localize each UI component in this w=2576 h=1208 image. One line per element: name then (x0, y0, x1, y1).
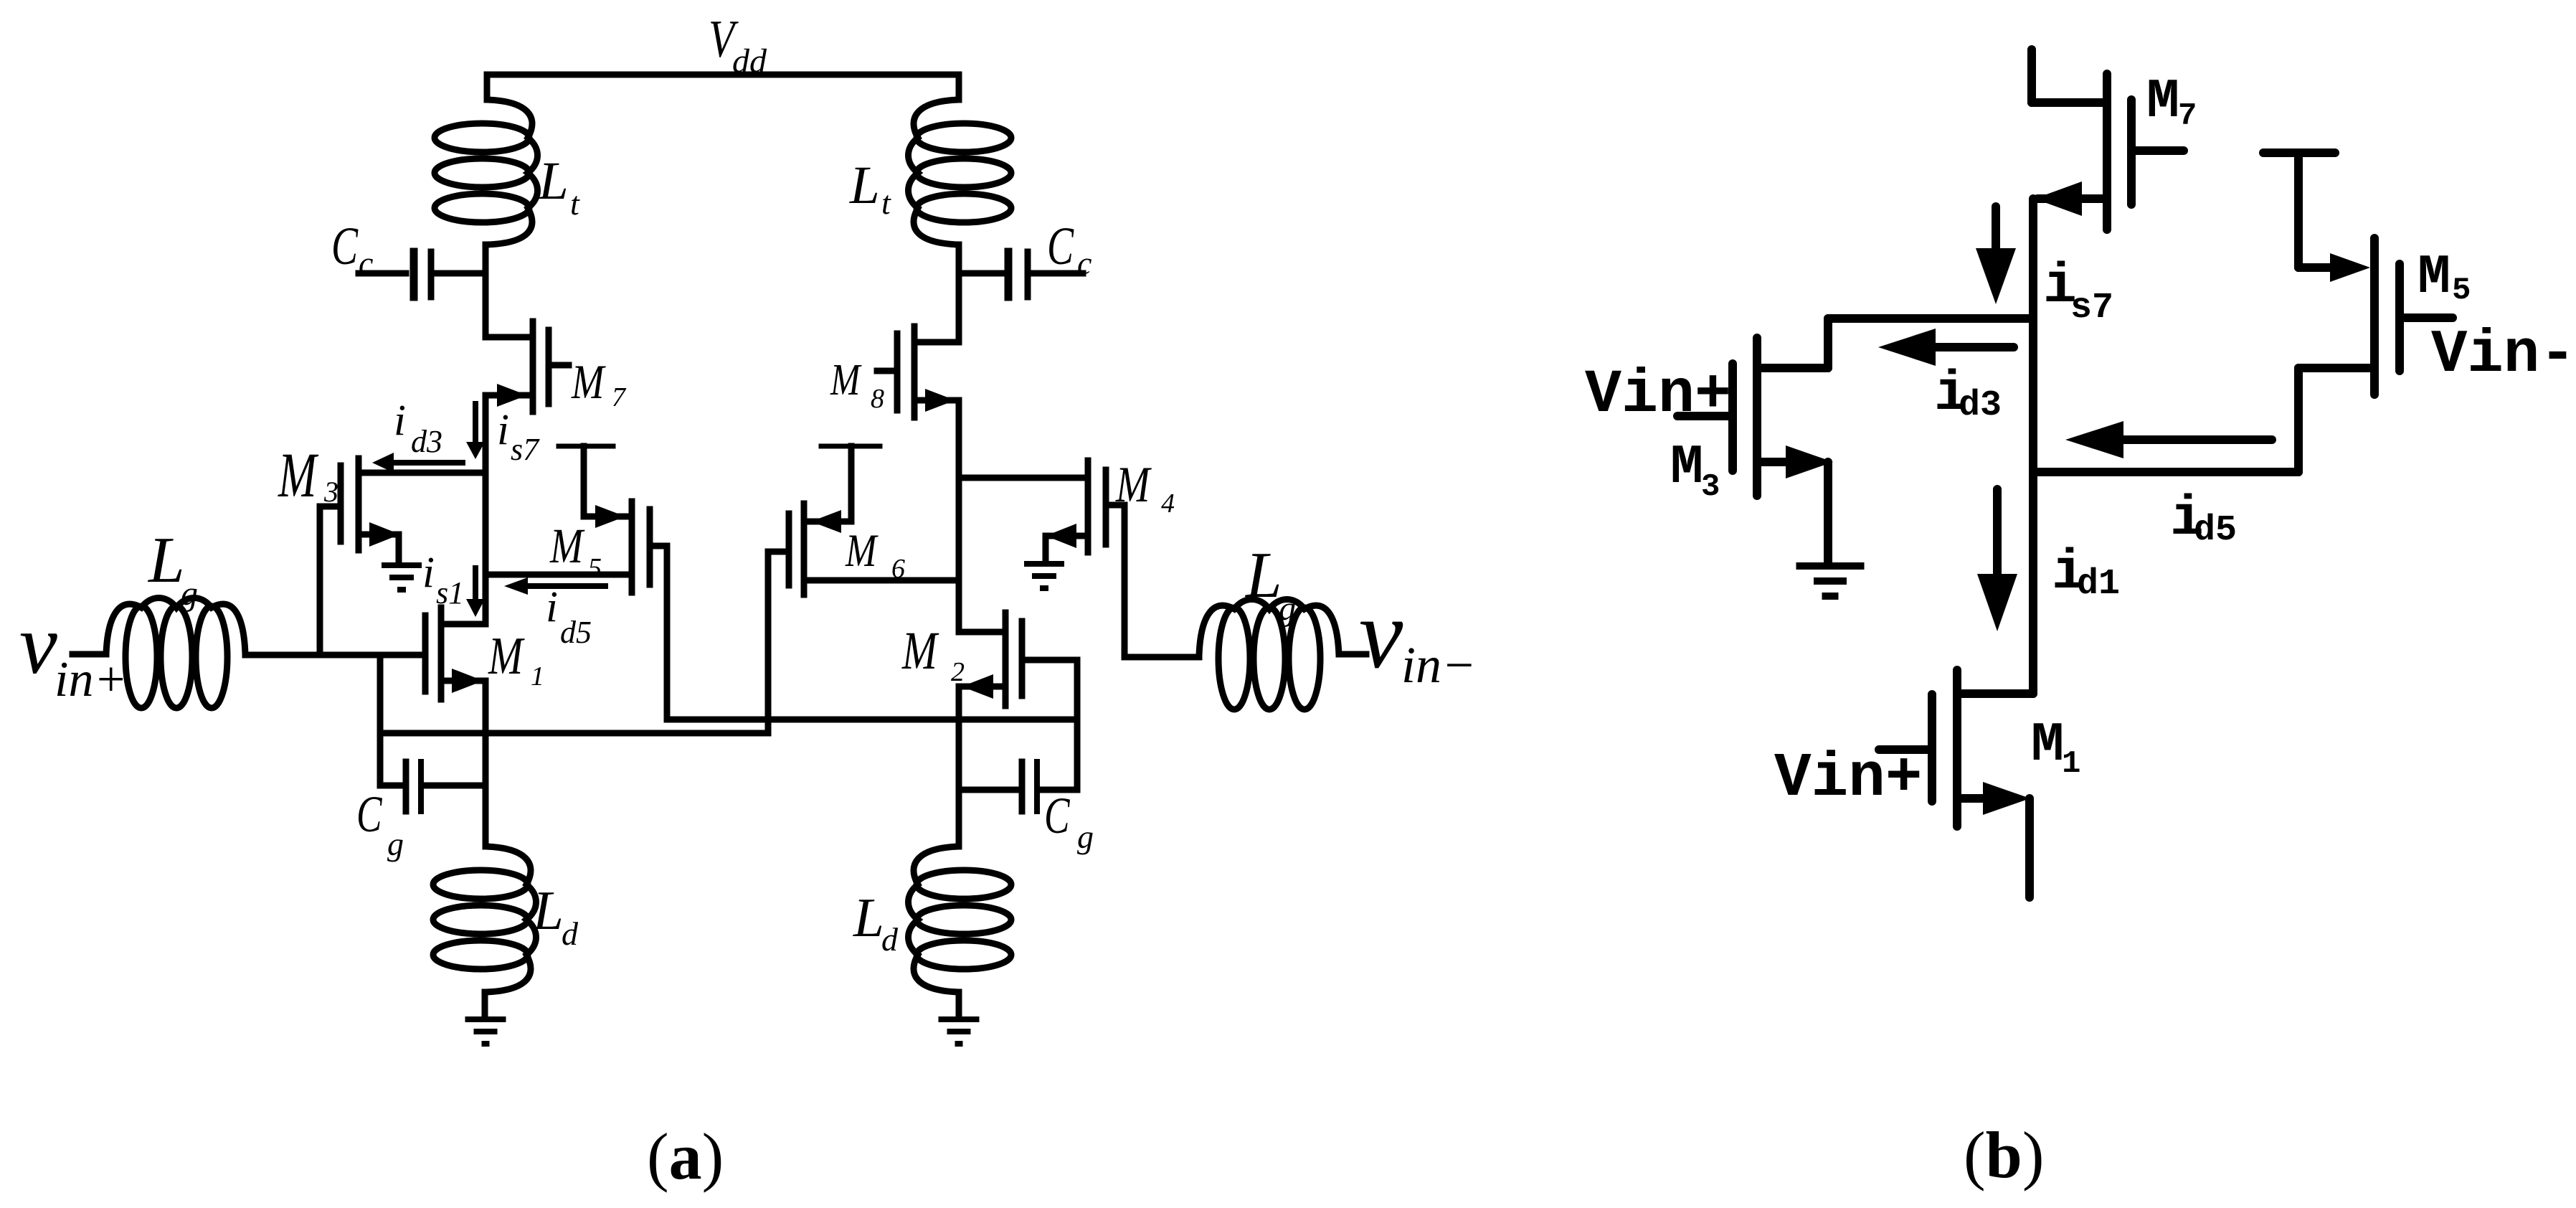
label M1 (b) (2031, 714, 2080, 782)
svg-text:M: M (830, 356, 862, 405)
svg-text:(a): (a) (647, 1120, 724, 1193)
current arrow id3 (b) (1878, 329, 2014, 366)
svg-text:7: 7 (2178, 98, 2197, 134)
label vin- (1359, 579, 1477, 694)
wire input down to Cg (377, 655, 384, 785)
label M4 (1115, 456, 1175, 519)
svg-text:i: i (422, 549, 435, 597)
current arrow is1 (466, 568, 485, 617)
current arrow id5 (b) (2065, 421, 2272, 458)
inductor Lt right (909, 100, 1012, 245)
svg-text:s7: s7 (511, 432, 540, 467)
label id3 (b) (1934, 363, 2002, 426)
current arrow is7 (466, 404, 485, 459)
label Cc left (331, 217, 373, 281)
caption (b) (1964, 1118, 2044, 1192)
svg-text:3: 3 (323, 476, 338, 508)
svg-text:M: M (488, 627, 525, 685)
svg-text:C: C (1044, 787, 1070, 844)
svg-text:d3: d3 (411, 424, 442, 459)
svg-text:L: L (1244, 539, 1282, 611)
svg-text:dd: dd (732, 42, 767, 80)
svg-text:M: M (549, 518, 584, 573)
wire Lt-bottom to M8 drain (956, 245, 962, 342)
svg-text:1: 1 (531, 661, 544, 692)
wire input node (245, 652, 425, 659)
label Vin+ bottom (b) (1774, 743, 1922, 813)
inductor Lt left (435, 100, 538, 245)
label Lg right (1244, 539, 1296, 628)
label M2 (901, 620, 965, 687)
svg-text:i: i (546, 583, 558, 631)
wire M8 source down (956, 400, 962, 632)
svg-text:C: C (331, 217, 359, 276)
transistor M5 (486, 501, 667, 593)
wire M3 gate down to input (317, 506, 323, 655)
svg-text:C: C (1047, 217, 1074, 276)
svg-text:g: g (387, 826, 404, 862)
svg-text:d3: d3 (1959, 385, 2002, 426)
svg-text:(b): (b) (1964, 1118, 2044, 1192)
svg-text:M: M (2418, 247, 2450, 309)
svg-text:d5: d5 (560, 615, 592, 650)
label id1 (b) (2052, 542, 2120, 605)
svg-text:d1: d1 (2077, 564, 2120, 605)
svg-text:M: M (278, 440, 319, 511)
ground M3 source (382, 534, 422, 593)
svg-text:in−: in− (1401, 636, 1477, 694)
svg-text:v: v (19, 597, 57, 692)
label M1 (488, 627, 544, 692)
wire vin+ stub (72, 651, 106, 658)
svg-text:g: g (1279, 590, 1296, 628)
svg-text:M: M (1115, 456, 1152, 512)
svg-text:s7: s7 (2070, 288, 2113, 329)
wire M5 drain to node (b) (2033, 368, 2298, 472)
label Lt right (849, 156, 891, 221)
svg-text:c: c (359, 245, 373, 281)
svg-text:t: t (570, 185, 580, 222)
svg-text:g: g (181, 575, 198, 613)
label M8 (830, 356, 884, 414)
wire M1 source down to Ld (483, 681, 489, 846)
bias tee M5 (559, 446, 613, 515)
ground Ld left (465, 992, 506, 1047)
label is7 (497, 406, 540, 467)
current arrow id1 (b) (1977, 489, 2017, 631)
inductor Ld left (433, 846, 536, 992)
svg-text:L: L (532, 879, 564, 941)
capacitor Cg left (380, 762, 486, 811)
svg-text:t: t (881, 184, 891, 221)
svg-text:c: c (1077, 245, 1092, 281)
svg-text:2: 2 (951, 657, 965, 687)
ground Ld right (939, 992, 980, 1047)
transistor M8 (877, 326, 959, 417)
wire M7 source down (b) (2029, 199, 2037, 694)
svg-text:L: L (147, 524, 185, 596)
wire Lt-bottom to M7 drain (483, 245, 489, 337)
capacitor Cc right (959, 252, 1083, 297)
capacitor Cc left (359, 252, 483, 297)
label Vin- (b) (2431, 321, 2576, 390)
svg-text:v: v (1359, 579, 1403, 689)
ground M3 (b) (1796, 462, 1865, 600)
svg-text:1: 1 (2062, 746, 2080, 782)
transistor M1 (b) (1879, 670, 2033, 897)
label M3 (b) (1670, 437, 1720, 505)
wire input node right (1124, 654, 1199, 661)
svg-text:s1: s1 (436, 575, 464, 610)
svg-text:in+: in+ (55, 652, 128, 707)
inductor Lg left (106, 598, 245, 709)
label Cg left (356, 785, 404, 862)
current arrow is7 (b) (1976, 207, 2016, 304)
svg-text:d5: d5 (2194, 510, 2237, 551)
wire vin- stub (1339, 651, 1366, 658)
wire M2 source down to Ld (956, 686, 962, 846)
label M7 (571, 355, 627, 412)
label Ld right (853, 887, 899, 958)
transistor M4 (959, 461, 1124, 552)
wire M5 gate down (664, 546, 671, 719)
transistor M3 (b) (1677, 338, 1833, 496)
label vin+ (19, 597, 128, 707)
svg-text:5: 5 (588, 553, 602, 583)
svg-text:Vin+: Vin+ (1585, 360, 1731, 430)
svg-text:C: C (356, 785, 382, 843)
inductor Lg right (1199, 600, 1339, 710)
label id5 (546, 583, 592, 650)
wire M3 drain to node (b) (1828, 318, 2033, 368)
current arrow id5 (504, 577, 605, 595)
transistor M1 (425, 608, 486, 699)
transistor M2 (959, 613, 1077, 706)
svg-text:M: M (2146, 71, 2179, 133)
bias tee M6 (821, 446, 880, 520)
transistor M7 (b) (2032, 49, 2184, 230)
label is1 (422, 549, 464, 610)
wire bus M5-gate (667, 660, 1077, 790)
svg-text:7: 7 (612, 382, 627, 412)
svg-text:8: 8 (871, 384, 884, 414)
label Cg right (1044, 787, 1094, 855)
wire M4 gate down to input (1122, 505, 1128, 657)
svg-text:d: d (562, 915, 579, 952)
wire M7 source down (483, 395, 489, 624)
label Vin+ top (b) (1585, 360, 1731, 430)
net Vdd rail (487, 75, 959, 100)
svg-text:Vin-: Vin- (2431, 321, 2576, 390)
transistor M7 (486, 321, 569, 412)
transistor M5 (b) (2263, 153, 2453, 395)
label Lt left (538, 151, 580, 222)
label Vdd (709, 10, 767, 80)
svg-text:L: L (849, 156, 880, 215)
label M3 (278, 440, 338, 511)
svg-text:M: M (1670, 437, 1703, 499)
svg-text:i: i (394, 397, 406, 445)
transistor M6 (768, 504, 959, 595)
svg-text:g: g (1077, 818, 1094, 855)
label M6 (845, 525, 905, 584)
ground M4 source (1024, 536, 1064, 591)
svg-text:6: 6 (891, 554, 905, 584)
svg-text:d: d (881, 921, 899, 958)
svg-text:Vin+: Vin+ (1774, 743, 1922, 813)
inductor Ld right (909, 846, 1012, 992)
svg-text:M: M (571, 355, 606, 409)
label M5 (b) (2418, 247, 2471, 309)
svg-text:4: 4 (1161, 489, 1175, 519)
label M5 (549, 518, 602, 583)
transistor M3 (320, 458, 486, 550)
label id5 (b) (2170, 488, 2237, 551)
label Cc right (1047, 217, 1092, 281)
svg-text:L: L (538, 151, 569, 211)
svg-text:5: 5 (2452, 273, 2471, 308)
label Ld left (532, 879, 579, 952)
label id3 (394, 397, 442, 459)
caption (a) (647, 1120, 724, 1193)
label is7 (b) (2043, 255, 2113, 329)
label M7 (b) (2146, 71, 2197, 134)
svg-text:M: M (901, 620, 939, 681)
label Lg left (147, 524, 198, 613)
svg-text:i: i (497, 406, 509, 454)
capacitor Cg right (959, 762, 1077, 811)
svg-text:M: M (2031, 714, 2064, 777)
current arrow id3 (372, 453, 463, 473)
svg-text:L: L (853, 887, 884, 948)
wire bus M6-gate (380, 552, 768, 733)
svg-text:M: M (845, 525, 879, 577)
svg-text:3: 3 (1701, 469, 1720, 505)
